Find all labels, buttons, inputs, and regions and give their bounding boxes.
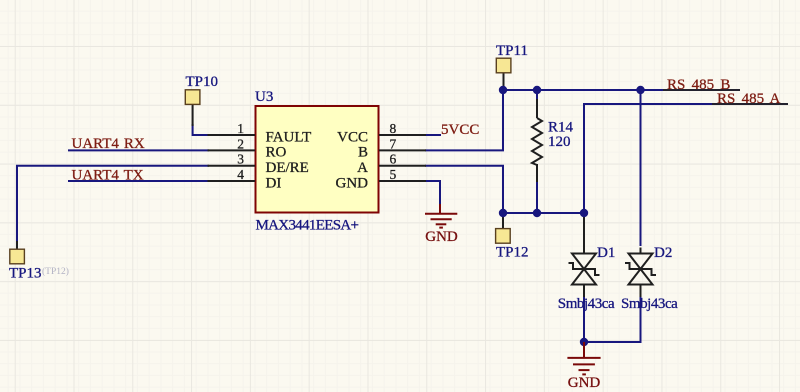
svg-text:TP10: TP10 (186, 74, 219, 90)
svg-text:DE/RE: DE/RE (266, 160, 309, 176)
svg-text:RO: RO (266, 145, 287, 161)
svg-text:120: 120 (548, 134, 571, 150)
svg-text:GND: GND (336, 175, 369, 191)
svg-text:VCC: VCC (337, 129, 368, 145)
svg-text:4: 4 (237, 167, 244, 182)
svg-text:D1: D1 (597, 245, 615, 261)
svg-text:GND: GND (425, 229, 458, 245)
svg-text:(TP12): (TP12) (42, 266, 69, 277)
svg-text:8: 8 (390, 121, 397, 136)
svg-text:Smbj43ca: Smbj43ca (621, 296, 678, 312)
svg-text:7: 7 (390, 136, 397, 151)
svg-text:5: 5 (390, 167, 397, 182)
svg-text:MAX3441EESA+: MAX3441EESA+ (256, 218, 359, 234)
svg-text:FAULT: FAULT (266, 129, 312, 145)
svg-text:6: 6 (390, 152, 397, 167)
svg-text:RS 485 A: RS 485 A (717, 91, 781, 107)
svg-text:5VCC: 5VCC (441, 122, 479, 138)
svg-text:3: 3 (237, 152, 244, 167)
svg-text:2: 2 (237, 136, 244, 151)
svg-text:UART4 RX: UART4 RX (72, 136, 145, 152)
svg-text:DI: DI (266, 175, 282, 191)
svg-text:D2: D2 (654, 245, 672, 261)
svg-text:B: B (358, 145, 368, 161)
svg-text:GND: GND (568, 375, 601, 391)
svg-text:TP13: TP13 (9, 265, 42, 281)
svg-text:U3: U3 (255, 89, 273, 105)
svg-text:UART4 TX: UART4 TX (72, 167, 144, 183)
svg-text:TP11: TP11 (496, 43, 528, 59)
svg-text:A: A (357, 160, 368, 176)
svg-text:TP12: TP12 (496, 245, 529, 261)
svg-text:Smbj43ca: Smbj43ca (558, 296, 615, 312)
svg-text:1: 1 (237, 121, 244, 136)
